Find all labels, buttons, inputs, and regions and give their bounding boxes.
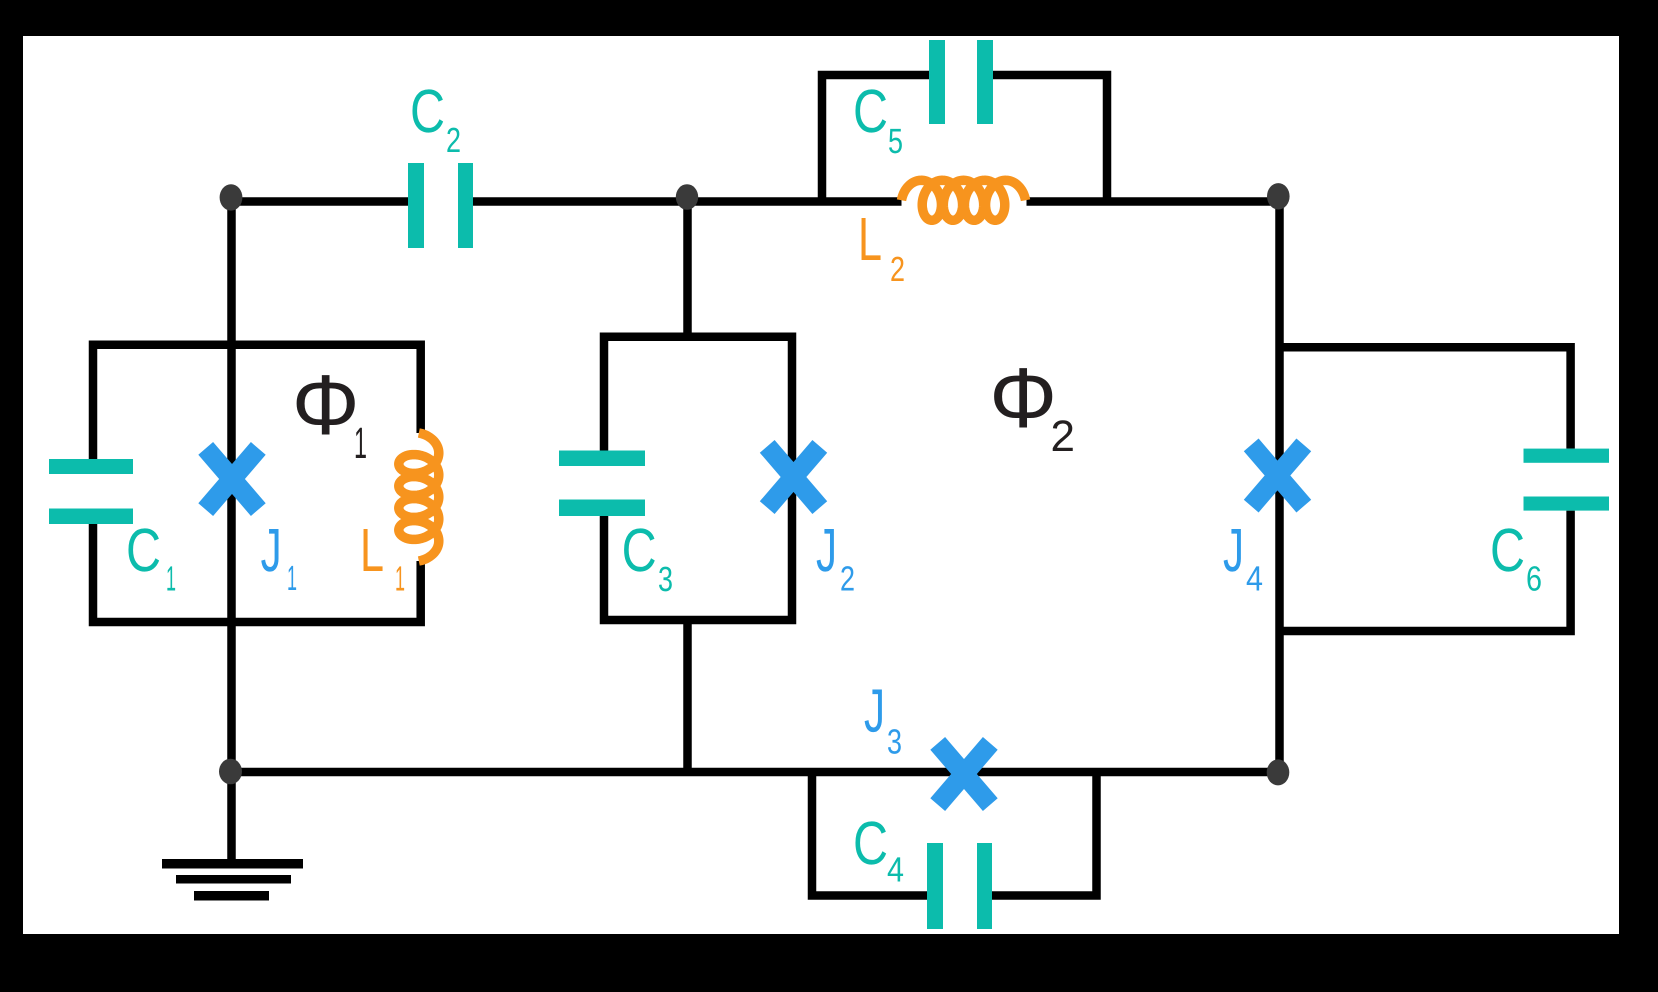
wire top rail left segment (node A to C2) bbox=[231, 197, 408, 206]
capacitor C6 bbox=[1524, 449, 1610, 511]
wire top rail right segment (L2 to node C) bbox=[1027, 197, 1280, 206]
svg-text:C: C bbox=[1490, 516, 1525, 584]
capacitor C1 bbox=[49, 459, 133, 524]
wire top rail middle segment (C2 to L2) bbox=[473, 197, 902, 206]
svg-text:5: 5 bbox=[888, 122, 903, 161]
label L2 bbox=[858, 205, 905, 289]
label C4 bbox=[853, 809, 904, 890]
label J1 bbox=[261, 516, 297, 598]
svg-text:C: C bbox=[410, 77, 445, 145]
wire middle vertical branch lower (C3 box to bottom rail) bbox=[683, 620, 692, 772]
label C3 bbox=[622, 516, 673, 599]
svg-text:Φ: Φ bbox=[989, 351, 1057, 446]
wire bottom rail (node D to node E) bbox=[231, 768, 1279, 777]
capacitor C3 bbox=[559, 451, 645, 517]
svg-text:J: J bbox=[816, 516, 837, 584]
junction J1 bbox=[206, 448, 259, 509]
svg-text:C: C bbox=[622, 516, 657, 584]
svg-text:3: 3 bbox=[658, 560, 673, 599]
svg-text:C: C bbox=[853, 809, 888, 877]
junction J2 bbox=[767, 446, 820, 507]
inductor L1 bbox=[399, 433, 439, 561]
ground bbox=[162, 859, 303, 901]
svg-text:4: 4 bbox=[887, 851, 904, 890]
wire right loop box (J4 / C6 frame) bbox=[1280, 347, 1571, 631]
svg-text:L: L bbox=[360, 516, 384, 584]
node E (bottom-right junction dot) bbox=[1267, 759, 1290, 785]
svg-text:1: 1 bbox=[395, 560, 405, 599]
svg-text:1: 1 bbox=[354, 419, 367, 468]
svg-text:2: 2 bbox=[840, 560, 855, 599]
svg-text:1: 1 bbox=[166, 560, 176, 599]
svg-text:3: 3 bbox=[887, 723, 902, 762]
capacitor C2 bbox=[408, 163, 473, 248]
node C (top-right junction dot) bbox=[1267, 183, 1290, 209]
wire left vertical branch (node A through J1 to node D) bbox=[227, 197, 236, 772]
node B (top-middle junction dot) bbox=[676, 184, 698, 210]
node A (top-left junction dot) bbox=[220, 184, 243, 210]
label C5 bbox=[853, 77, 903, 161]
junction J4 bbox=[1251, 445, 1304, 506]
inductor L2 bbox=[902, 180, 1026, 220]
node flux label Phi_1 bbox=[292, 358, 367, 468]
svg-text:1: 1 bbox=[287, 559, 297, 598]
node flux label Phi_2 bbox=[989, 351, 1075, 461]
label C6 bbox=[1490, 516, 1542, 599]
wire J3/C4 loop box lower frame bbox=[812, 772, 1097, 896]
wire C5 loop box upper frame bbox=[822, 75, 1107, 202]
capacitor C4 bbox=[927, 843, 992, 929]
label L1 bbox=[360, 516, 405, 599]
svg-text:C: C bbox=[126, 516, 161, 584]
wire left loop box (C1 / L1 frame) bbox=[93, 345, 421, 622]
wire middle vertical branch upper (node B to C3 box) bbox=[683, 197, 692, 337]
wire ground stem bbox=[227, 772, 236, 861]
svg-text:C: C bbox=[853, 77, 888, 145]
svg-text:J: J bbox=[864, 677, 885, 745]
svg-text:4: 4 bbox=[1246, 560, 1263, 599]
svg-text:2: 2 bbox=[1051, 412, 1075, 461]
svg-text:6: 6 bbox=[1526, 560, 1542, 599]
wire right vertical branch (node C through J4 to node E) bbox=[1275, 196, 1284, 772]
node D (bottom-left junction dot) bbox=[219, 759, 242, 785]
label J4 bbox=[1223, 516, 1263, 599]
label J2 bbox=[816, 516, 855, 599]
svg-text:2: 2 bbox=[890, 250, 905, 289]
svg-text:Φ: Φ bbox=[292, 358, 360, 453]
svg-text:J: J bbox=[261, 516, 282, 584]
svg-text:L: L bbox=[858, 205, 882, 273]
capacitor C5 bbox=[929, 40, 993, 124]
svg-text:J: J bbox=[1223, 516, 1244, 584]
svg-text:2: 2 bbox=[446, 121, 461, 160]
label J3 bbox=[864, 677, 902, 762]
label C1 bbox=[126, 516, 176, 599]
label C2 bbox=[410, 77, 461, 160]
junction J3 bbox=[938, 743, 991, 804]
wire middle loop box (C3 / J2 frame) bbox=[604, 337, 792, 620]
